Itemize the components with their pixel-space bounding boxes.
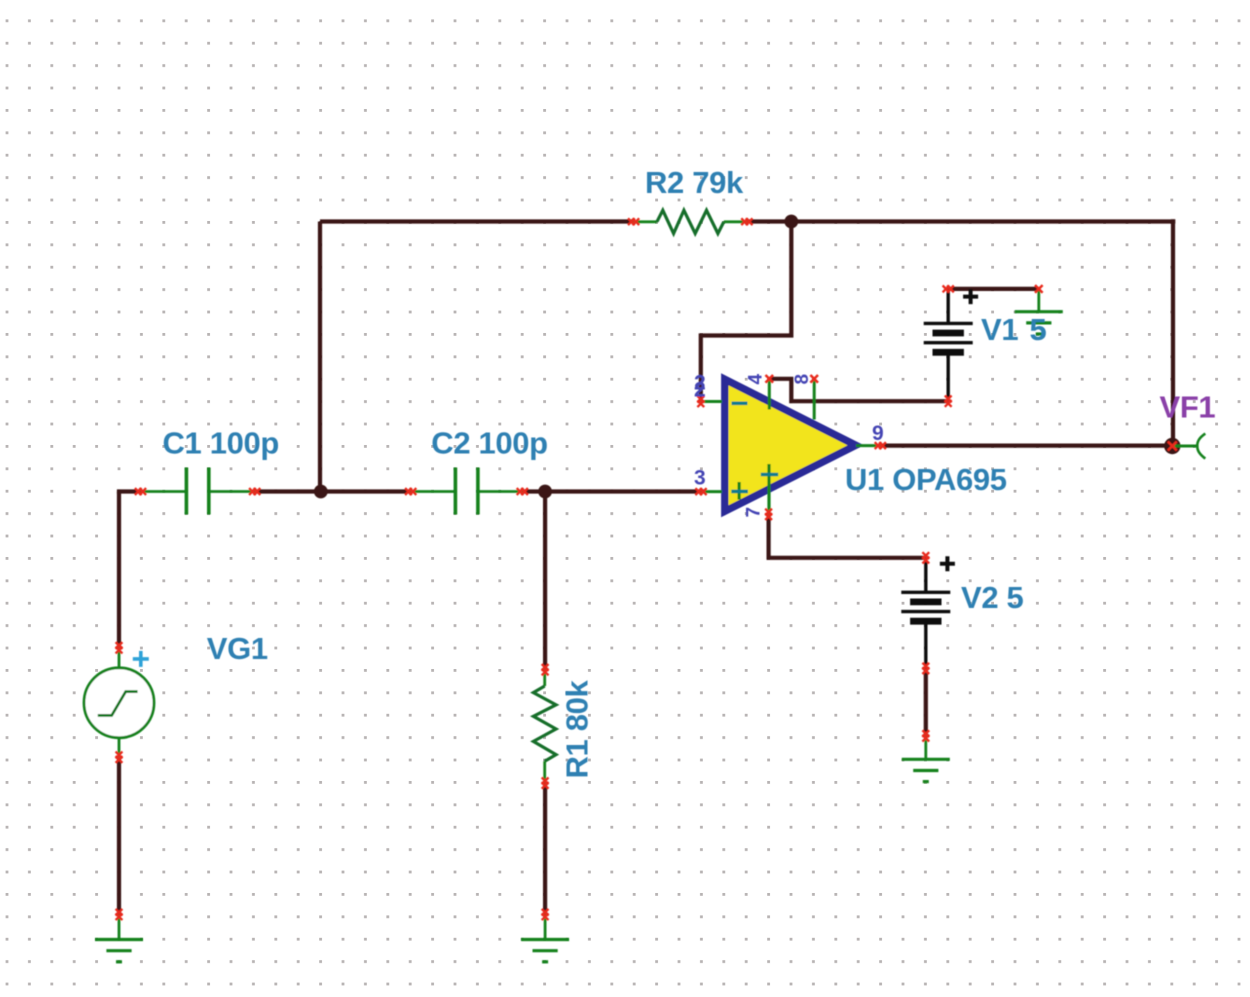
wire op-amp V- pin to V1 battery: [769, 379, 948, 401]
wire op-amp output to VF1: [880, 444, 1171, 448]
ground at R1: [521, 915, 569, 962]
svg-text:VF1: VF1: [1160, 389, 1216, 424]
pin number 7 (rotated): [744, 507, 765, 517]
C1 terminal x marks: [135, 488, 260, 495]
R2 terminal x marks: [628, 218, 753, 225]
svg-text:C2 100p: C2 100p: [431, 426, 547, 461]
wire input corner to C1: [119, 492, 141, 494]
wire feedback top-right from R2 to right rail: [747, 219, 1175, 223]
wire op-amp V+ pin to V2 battery: [769, 514, 926, 558]
capacitor C1: [141, 468, 255, 515]
ground at VG1: [95, 915, 143, 962]
U1 V+ pin stub: [767, 464, 770, 514]
C2 terminal x marks: [405, 488, 528, 495]
label V1 5: [981, 312, 1047, 347]
wire V1 top to ground: [948, 287, 1039, 291]
junction node at R2 right / feedback: [784, 215, 798, 229]
wire feedback top-left from node A to R2: [320, 219, 634, 223]
label R1 80k: [560, 680, 595, 779]
wire VG1 top rail: [117, 492, 121, 648]
V2 plus sign: [940, 556, 955, 571]
svg-text:7: 7: [744, 507, 765, 517]
VF1 probe symbol: [1172, 434, 1205, 459]
wire C1 to C2 through node A: [255, 489, 411, 493]
wire VG1 to ground: [117, 757, 121, 914]
pin number 2: [694, 372, 705, 402]
svg-text:8: 8: [792, 374, 813, 384]
U1 V- pin stub: [768, 379, 771, 410]
pin number 4 (rotated): [745, 374, 766, 385]
wire node B down to R1: [543, 492, 547, 670]
svg-text:4: 4: [745, 374, 766, 385]
junction node B (C2-R1): [538, 485, 552, 499]
VG1 terminal x marks: [116, 642, 123, 763]
U1 pin terminal x marks: [695, 375, 886, 520]
wire feedback left rail down to node A: [318, 222, 322, 492]
V2 terminal x marks: [922, 552, 929, 674]
label VG1: [207, 631, 268, 666]
pin number 8 (rotated): [792, 374, 813, 384]
wire R1 to ground: [543, 783, 547, 914]
svg-text:9: 9: [872, 422, 883, 445]
svg-text:R2 79k: R2 79k: [645, 165, 744, 200]
battery V1: [924, 289, 973, 401]
U1 output stub: [856, 444, 880, 447]
label VF1: [1160, 389, 1216, 424]
pin number 9: [872, 422, 883, 445]
R1 ground x mark: [542, 909, 549, 920]
V1 ground x mark: [1035, 285, 1043, 293]
svg-text:V1: V1: [981, 312, 1018, 347]
resistor R1: [533, 670, 556, 783]
wire right rail down to VF1 node: [1171, 219, 1175, 445]
resistor R2: [634, 210, 747, 233]
V1 plus sign: [963, 289, 978, 304]
svg-text:U1 OPA695: U1 OPA695: [845, 462, 1007, 497]
svg-text:R1 80k: R1 80k: [560, 680, 595, 779]
junction node A (C1-C2, feedback): [314, 485, 328, 499]
wire feedback node down-left to op-amp pin 2: [701, 222, 792, 402]
svg-text:C1 100p: C1 100p: [163, 426, 279, 461]
VF1 terminal x mark: [1168, 442, 1177, 451]
V2 ground x mark: [922, 730, 929, 741]
U1 pin 2 stub: [701, 400, 722, 403]
wire C2 to op-amp pin 3 through node B: [522, 489, 704, 493]
svg-text:3: 3: [694, 467, 705, 490]
U1 plus mark (V+): [761, 473, 778, 477]
pin number 3: [694, 467, 705, 490]
svg-text:V2 5: V2 5: [961, 580, 1023, 615]
wire V2 bottom to ground: [924, 668, 928, 736]
R1 terminal x marks: [542, 664, 549, 789]
svg-text:2: 2: [694, 379, 705, 402]
VF1 output node dot: [1164, 438, 1180, 454]
label R2 79k: [645, 165, 744, 200]
label U1 OPA695: [845, 462, 1007, 497]
VG1 plus sign: [133, 651, 149, 667]
label C2 100p: [431, 426, 547, 461]
label C1 100p: [163, 426, 279, 461]
VG1 ground x mark: [116, 909, 123, 920]
op-amp U1 body: [725, 379, 856, 511]
V1 terminal x marks: [943, 286, 954, 407]
U1 minus mark: [732, 401, 748, 405]
U1 plus mark (pin 3): [731, 482, 748, 500]
ground at V2: [902, 736, 950, 782]
U1 DIS pin stub: [813, 379, 816, 420]
source VG1: [84, 648, 154, 757]
svg-text:5: 5: [1030, 312, 1047, 347]
U1 pin 3 stub: [701, 490, 722, 493]
ground at V1: [1015, 289, 1063, 334]
capacitor C2: [411, 468, 523, 515]
label V2 5: [961, 580, 1023, 615]
battery V2: [901, 558, 950, 669]
svg-text:VG1: VG1: [207, 631, 268, 666]
